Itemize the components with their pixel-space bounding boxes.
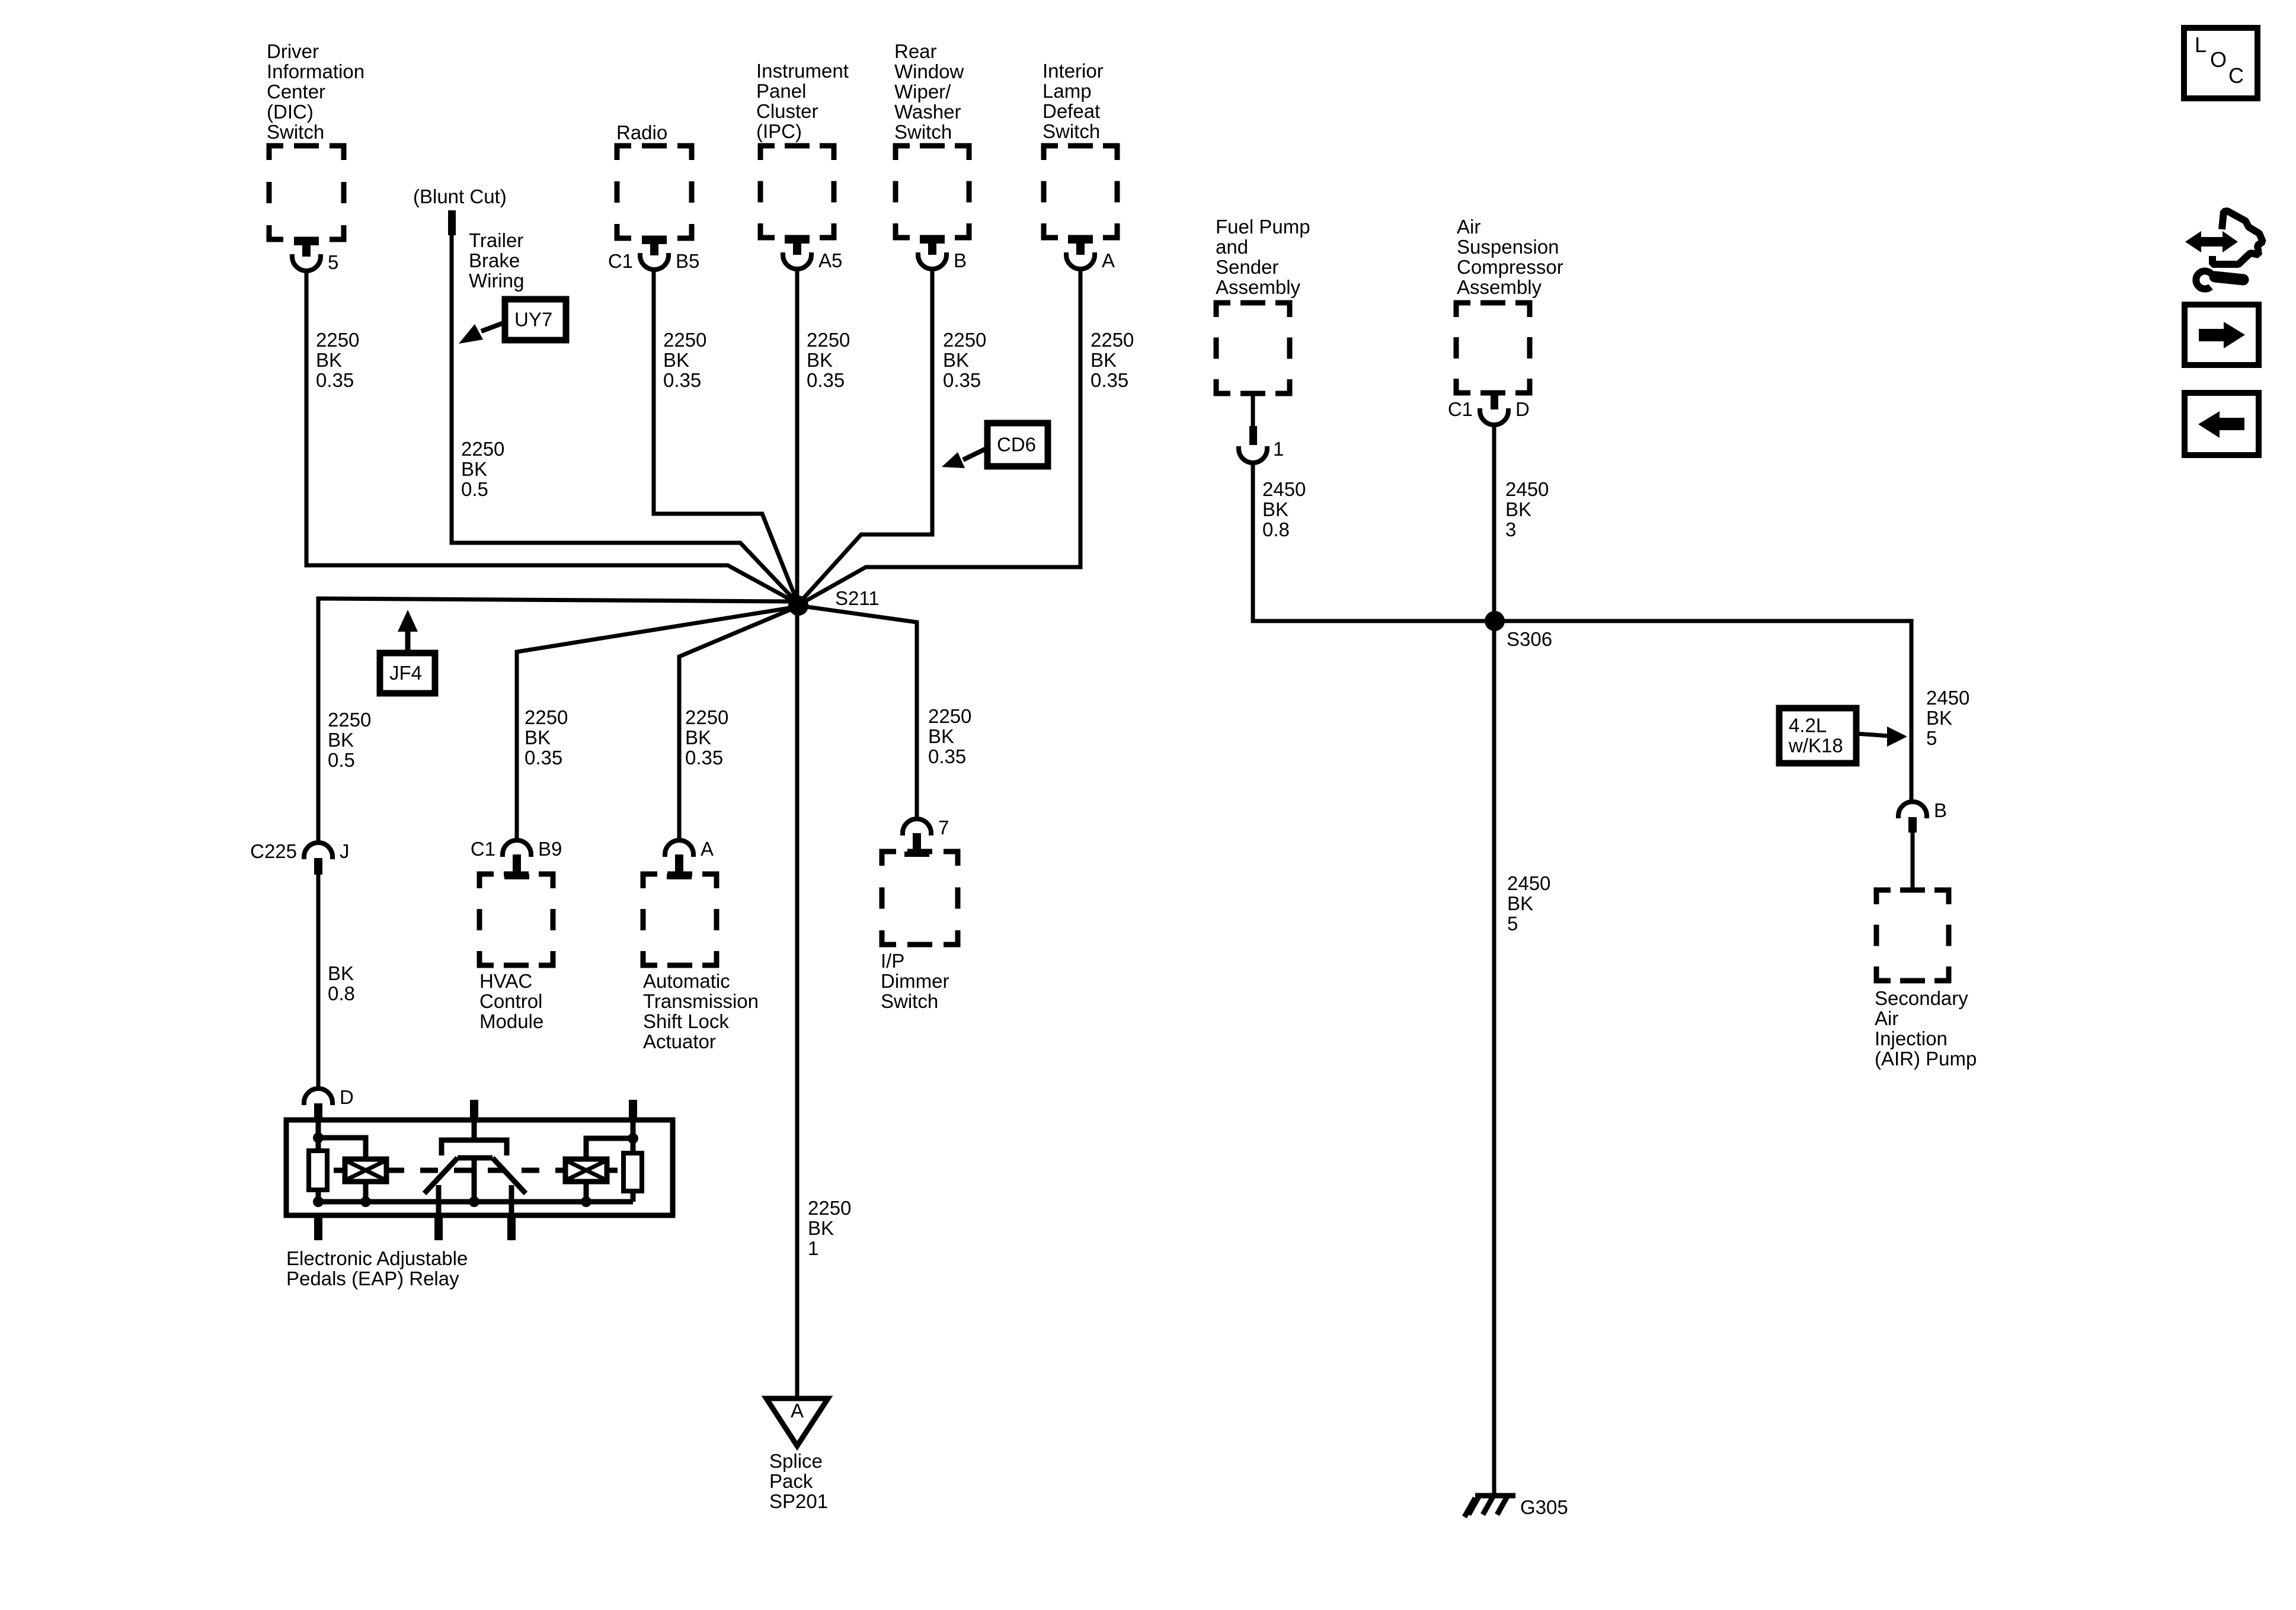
splice S306	[1485, 611, 1505, 631]
component box Interior Lamp Defeat Switch	[1044, 146, 1117, 238]
connector IPC pin A5	[785, 238, 810, 244]
option label box JF4	[380, 653, 435, 693]
connector EAP relay pin D	[304, 1089, 332, 1105]
component box Driver Information Center (DIC) Switch	[269, 146, 344, 239]
svg-text:C1: C1	[1448, 398, 1473, 420]
connector interior lamp defeat pin A	[1068, 238, 1093, 244]
svg-text:Radio: Radio	[616, 121, 667, 143]
splice S211	[788, 596, 808, 616]
component box Instrument Panel Cluster (IPC)	[760, 146, 834, 238]
component box Fuel Pump and Sender Assembly	[1216, 303, 1290, 393]
connector radio C1 pin B5	[642, 238, 667, 244]
relay coil outer stubs	[334, 1168, 618, 1173]
component box Secondary Air Injection (AIR) Pump	[1876, 890, 1949, 981]
svg-text:B: B	[1934, 799, 1947, 821]
relay junction dots	[313, 1132, 324, 1143]
option label box CD6	[987, 423, 1048, 466]
wire DIC switch to S211 (2250 BK 0.35)	[306, 268, 798, 604]
svg-text:Interior Lamp Defeat Switch: Interior Lamp Defeat Switch	[1043, 60, 1109, 142]
component box I/P Dimmer Switch	[882, 852, 958, 945]
connector fuel pump pin 1	[1251, 393, 1255, 426]
svg-text:J: J	[340, 840, 350, 862]
svg-text:BK 0.8: BK 0.8	[328, 962, 359, 1004]
component box Radio	[617, 146, 692, 238]
component box Air Suspension Compressor Assembly	[1456, 303, 1530, 393]
relay switch bracket	[442, 1140, 507, 1156]
connector I/P dimmer pin 7	[903, 819, 931, 836]
connector wiper switch pin B	[920, 238, 945, 244]
wire air suspension through S306 to G305 (2450 BK 3 / 5)	[1492, 424, 1496, 1496]
svg-text:Electronic Adjustable Pedals (: Electronic Adjustable Pedals (EAP) Relay	[286, 1247, 474, 1289]
svg-text:S306: S306	[1507, 628, 1552, 650]
LOC reference box icon	[2184, 28, 2257, 98]
svg-text:C1: C1	[608, 250, 633, 272]
component box HVAC Control Module	[479, 874, 553, 965]
component box Rear Window Wiper/Washer Switch	[896, 146, 969, 238]
svg-text:G305: G305	[1520, 1496, 1568, 1518]
wire interior lamp to S211 (2250 BK 0.35)	[800, 268, 1080, 604]
wire S306 to secondary AIR pump (2450 BK 5)	[1495, 621, 1911, 802]
harness repair icon (double arrow, connector outline, wrench)	[2185, 211, 2263, 289]
relay pin bottom-left	[314, 1214, 322, 1240]
svg-text:L: L	[2195, 33, 2207, 57]
svg-text:HVAC Control Module: HVAC Control Module	[479, 970, 548, 1032]
connector C225 pin J	[304, 843, 332, 859]
svg-text:S211: S211	[835, 587, 880, 609]
relay pin top-right	[629, 1100, 637, 1121]
arrow JF4 to S211-C225 wire	[405, 629, 411, 653]
svg-text:A: A	[701, 838, 714, 860]
next-page arrow icon (right)	[2185, 305, 2259, 365]
wire blunt cut to S211 (2250 BK 0.5)	[452, 235, 798, 604]
previous-page arrow icon (left)	[2185, 393, 2259, 455]
wire radio to S211 (2250 BK 0.35)	[654, 268, 797, 601]
option label box UY7	[505, 299, 566, 340]
svg-text:D: D	[1515, 398, 1530, 420]
component box Automatic Transmission Shift Lock Actuator	[643, 874, 717, 965]
relay pin bottom-middle-right	[507, 1214, 516, 1240]
svg-text:A5: A5	[818, 249, 842, 271]
relay mechanical linkage (dashed)	[386, 1168, 565, 1173]
relay pin top-middle	[470, 1100, 478, 1121]
relay pin bottom-middle-left	[434, 1214, 443, 1240]
svg-text:A: A	[791, 1400, 804, 1422]
svg-text:C225: C225	[250, 840, 297, 862]
option label box 4.2L w/K18	[1779, 708, 1856, 763]
svg-text:CD6: CD6	[997, 434, 1036, 456]
svg-text:(Blunt Cut): (Blunt Cut)	[413, 185, 507, 207]
svg-text:5: 5	[328, 251, 338, 273]
relay switch (trapezoid contacts)	[424, 1158, 526, 1193]
wire S211 to shift lock actuator (2250 BK 0.35)	[679, 607, 797, 840]
svg-text:7: 7	[938, 817, 949, 838]
arrow 4.2L w/K18 to AIR pump wire	[1856, 734, 1889, 736]
svg-text:1: 1	[1273, 438, 1284, 460]
wire wiper switch to S211 (2250 BK 0.35)	[800, 268, 932, 603]
connector HVAC C1 pin B9	[503, 840, 531, 857]
blunt cut wire end bar	[448, 210, 456, 235]
wire S211 to I/P dimmer switch (2250 BK 0.35)	[798, 606, 917, 819]
wire C225 J to EAP relay D (BK 0.8)	[316, 875, 321, 1089]
relay coil left (solenoid)	[345, 1159, 386, 1182]
svg-text:O: O	[2210, 47, 2227, 72]
Electronic Adjustable Pedals (EAP) relay box	[286, 1120, 673, 1215]
connector DIC switch pin 5	[294, 239, 319, 245]
relay resistor left	[309, 1151, 327, 1190]
svg-text:D: D	[340, 1086, 354, 1108]
svg-text:B5: B5	[676, 250, 699, 272]
connector secondary AIR pump pin B	[1898, 802, 1927, 818]
relay resistor right	[623, 1153, 642, 1191]
wire fuel pump to S306 (2450 BK 0.8)	[1253, 462, 1495, 621]
svg-text:C1: C1	[471, 838, 495, 860]
ground G305	[1464, 1496, 1515, 1517]
splice pack SP201 triangle A	[766, 1398, 828, 1446]
wire B connector to AIR pump box	[1911, 831, 1915, 890]
svg-text:B: B	[954, 249, 967, 271]
svg-text:C: C	[2228, 63, 2244, 88]
relay internal wiring left	[318, 1121, 633, 1202]
connector shift lock pin A	[665, 840, 693, 857]
wire S211 to HVAC (2250 BK 0.35)	[517, 607, 797, 840]
wire IPC to splice pack SP201 (through S211)	[795, 268, 800, 1398]
svg-text:B9: B9	[538, 838, 562, 860]
svg-text:Trailer Brake Wiring: Trailer Brake Wiring	[469, 229, 529, 292]
wire S211 to C225 J (2250 BK 0.5)	[318, 598, 794, 843]
svg-text:JF4: JF4	[389, 662, 422, 684]
connector air suspension C1 pin D	[1491, 393, 1498, 409]
svg-text:A: A	[1102, 249, 1115, 271]
svg-text:UY7: UY7	[514, 309, 552, 331]
relay coil right (solenoid)	[565, 1159, 607, 1182]
relay pin top-left (from D)	[314, 1103, 322, 1121]
arrow UY7 to blunt cut wire	[481, 322, 505, 331]
arrow CD6 to wiper wire	[963, 448, 987, 460]
